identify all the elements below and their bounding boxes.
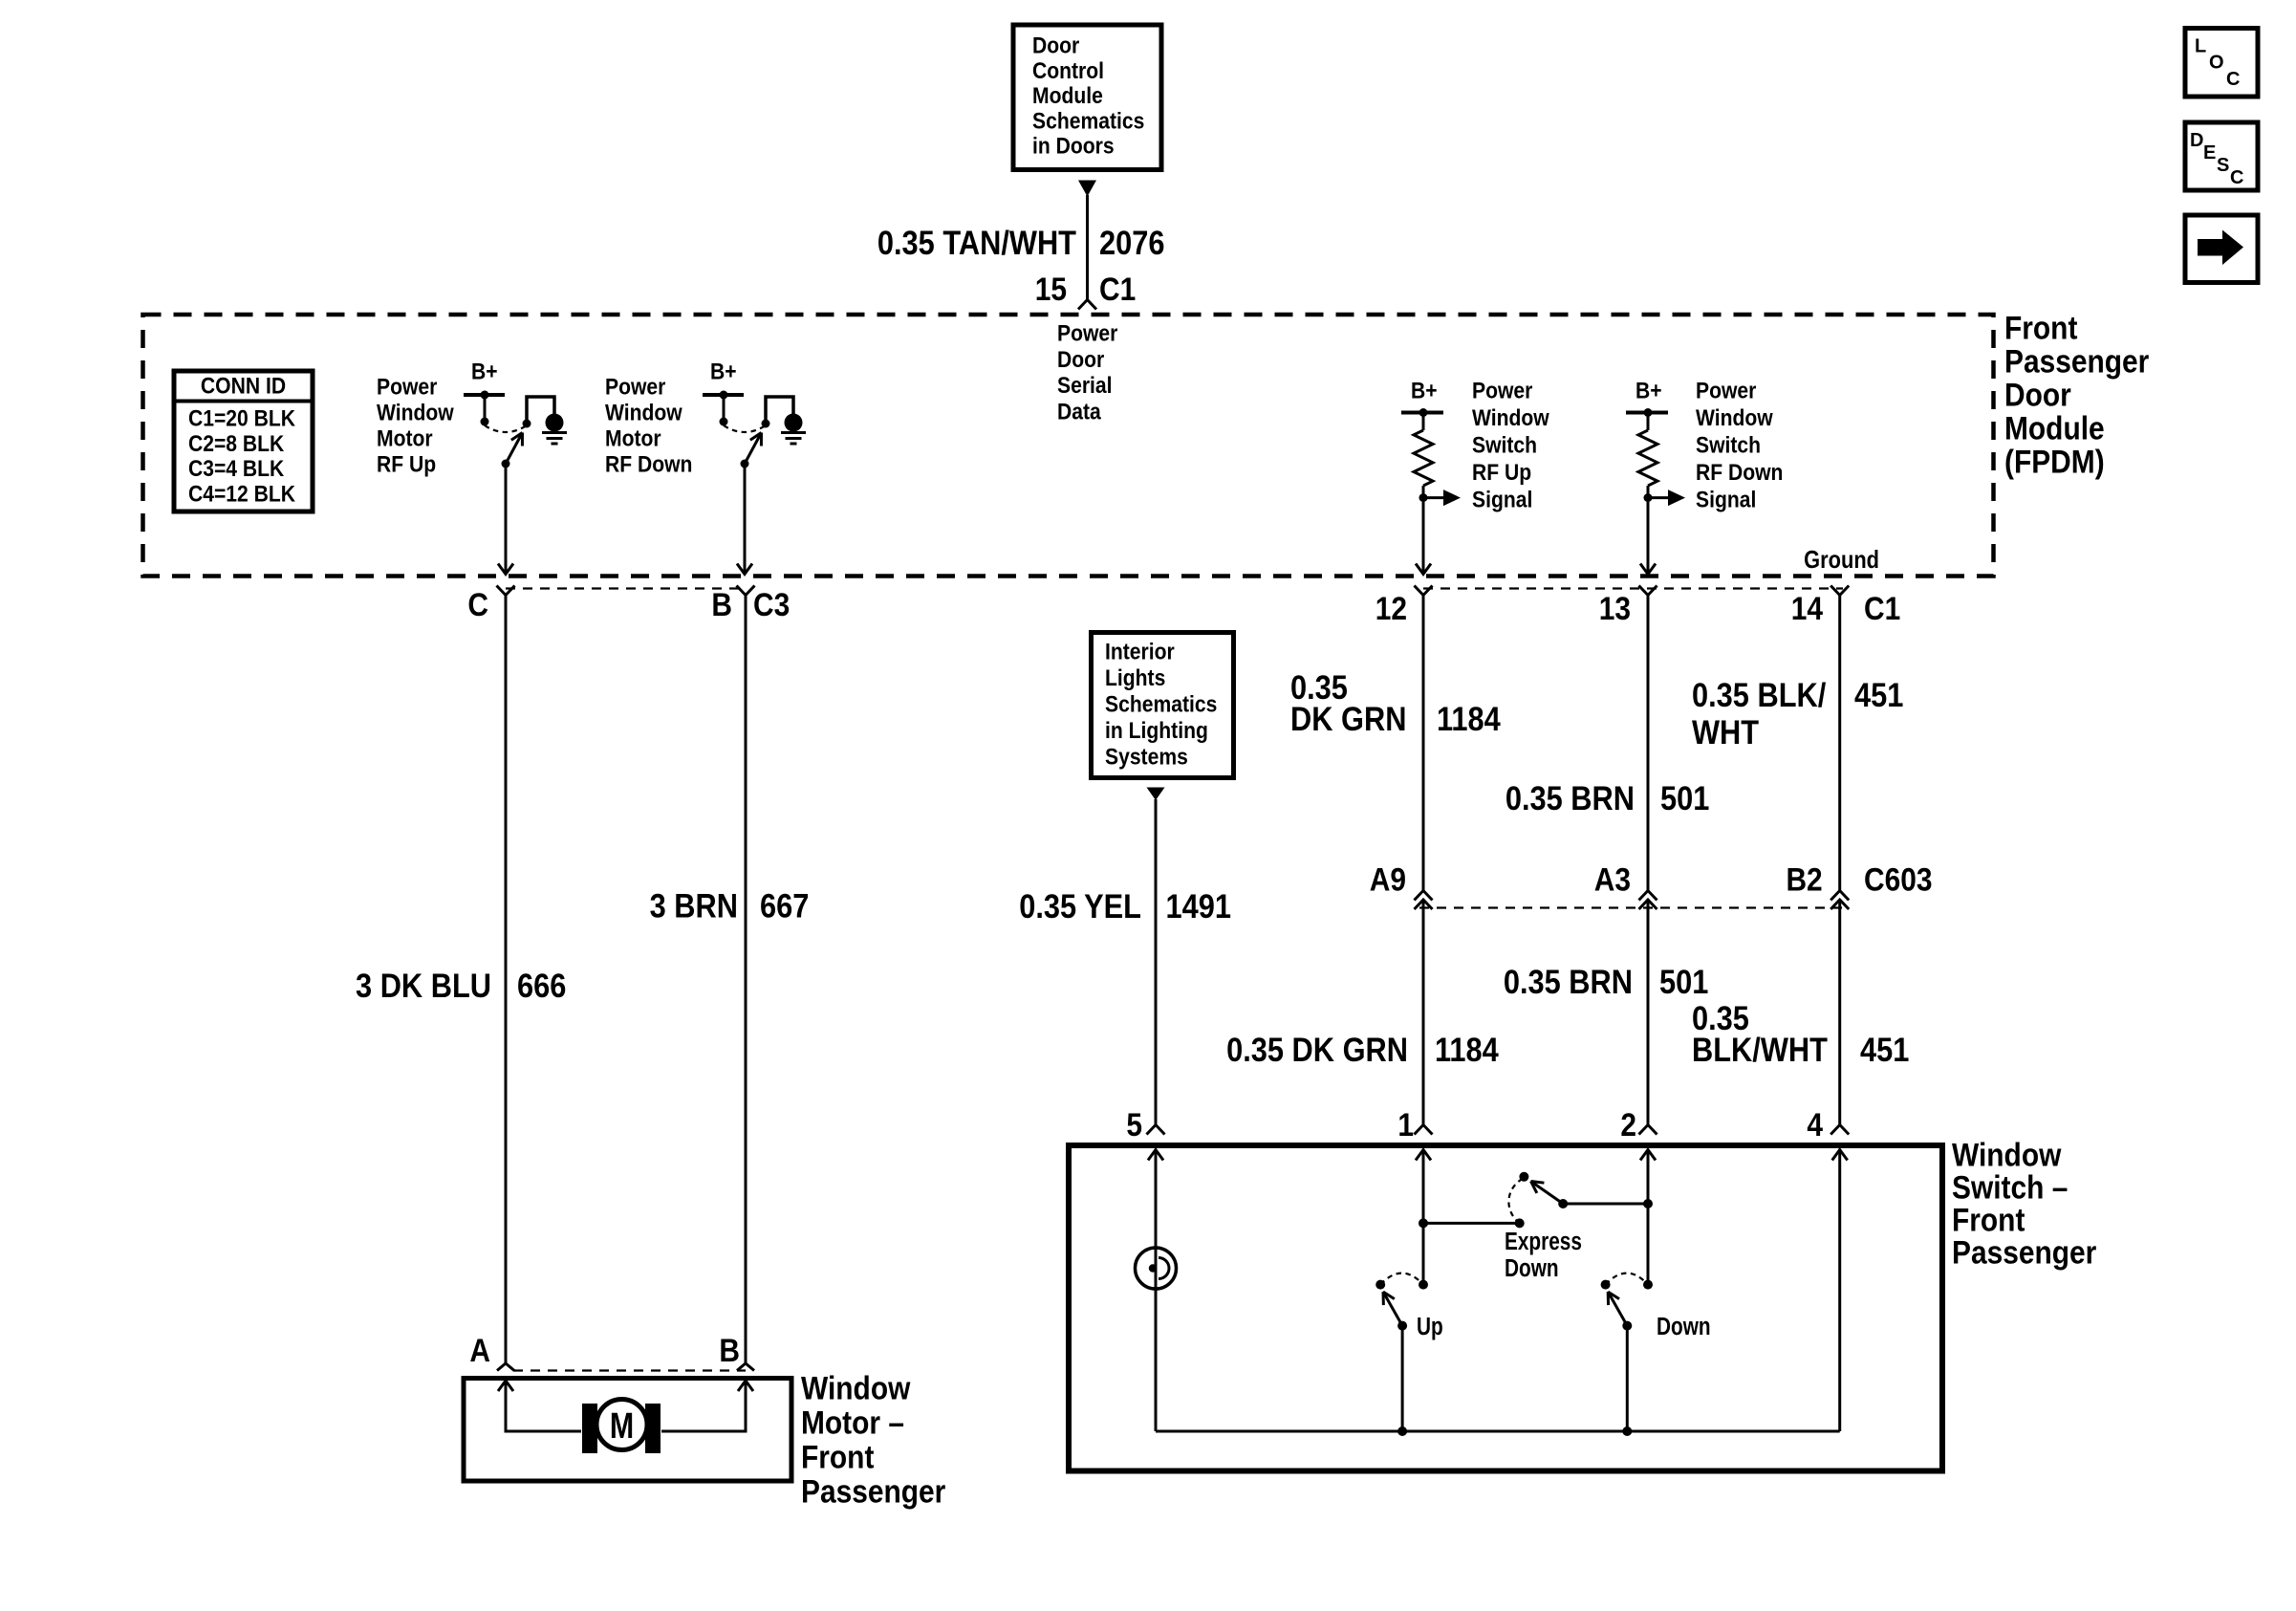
signal node with arrow (1419, 490, 1462, 506)
svg-text:Switch: Switch (1696, 432, 1761, 458)
component outline: Window Switch - Front Passenger (1069, 1145, 1942, 1471)
svg-text:501: 501 (1659, 963, 1708, 1000)
svg-text:Window: Window (1472, 405, 1549, 431)
motor lead B (661, 1381, 746, 1431)
svg-text:Signal: Signal (1472, 487, 1532, 512)
wire: up switch to ground bus (1401, 1326, 1404, 1431)
svg-text:C: C (2226, 69, 2240, 90)
connector fork: motor pin B (737, 1363, 754, 1371)
component outline: Window Motor - Front Passenger (464, 1379, 791, 1482)
svg-text:Front: Front (1952, 1202, 2025, 1238)
svg-text:B+: B+ (471, 359, 498, 384)
wire label 0.35 TAN/WHT 2076 (877, 224, 1165, 261)
switch throw arc (dashed) (724, 425, 766, 432)
B+ feed (1626, 378, 1668, 417)
svg-text:C2=8 BLK: C2=8 BLK (188, 431, 285, 457)
svg-text:Lights: Lights (1105, 665, 1165, 691)
pull-up resistor (1638, 414, 1657, 495)
wire entry arrow pin 5 (1148, 1150, 1163, 1161)
wire from switch to module edge (498, 466, 513, 575)
svg-text:Power: Power (605, 374, 666, 400)
wire label 0.35 BLK/WHT 451 (upper) (1692, 676, 1903, 751)
CONN ID table (174, 371, 313, 512)
connector dashed link C1 (1423, 587, 1843, 589)
wire entry arrow pin 2 (1640, 1150, 1656, 1161)
svg-text:in Lighting: in Lighting (1105, 718, 1208, 744)
svg-text:Motor –: Motor – (801, 1404, 904, 1441)
svg-text:Window: Window (377, 400, 454, 425)
svg-text:13: 13 (1599, 590, 1631, 626)
svg-text:Motor: Motor (605, 425, 661, 451)
svg-text:E: E (2203, 142, 2216, 163)
svg-text:C: C (467, 586, 488, 622)
switch throw arc (dashed) (485, 425, 527, 432)
wire: pin 4 to ground bus (1838, 1149, 1841, 1431)
pull-up resistor (1414, 414, 1433, 495)
svg-text:B: B (719, 1332, 740, 1368)
reference box: Interior Lights Schematics in Lighting Systems (1092, 633, 1234, 778)
svg-text:A: A (469, 1332, 490, 1368)
svg-text:1184: 1184 (1437, 700, 1501, 737)
connector fork: switch pin 5 (1147, 1125, 1165, 1135)
svg-text:1: 1 (1397, 1106, 1414, 1143)
express down common link to pin 2 wire (1563, 1199, 1653, 1208)
label: Power Window Switch RF Down Signal (1696, 378, 1783, 512)
motor pin A entry arrow (498, 1381, 513, 1391)
svg-text:C3=4 BLK: C3=4 BLK (188, 456, 285, 482)
svg-text:Power: Power (1472, 378, 1533, 403)
ground contact with bracket (762, 397, 794, 428)
wire label 0.35 BLK/WHT 451 (lower) (1692, 999, 1909, 1068)
svg-text:Motor: Motor (377, 425, 433, 451)
svg-text:0.35 DK GRN: 0.35 DK GRN (1226, 1031, 1408, 1068)
connector fork: switch pin 4 (1830, 1125, 1849, 1135)
svg-text:M: M (610, 1406, 634, 1447)
connector dashed link A-B (513, 1369, 746, 1371)
motor pin B entry arrow (738, 1381, 753, 1391)
down switch arm (1608, 1292, 1632, 1331)
up switch arm (1383, 1292, 1407, 1331)
svg-text:C1: C1 (1099, 271, 1136, 307)
svg-text:Passenger: Passenger (1952, 1234, 2096, 1271)
svg-text:RF Down: RF Down (605, 451, 692, 477)
svg-text:L: L (2195, 35, 2206, 56)
express down pick-off junction (1419, 1218, 1525, 1228)
module label: Front Passenger Door Module (FPDM) (2004, 310, 2149, 480)
wire: connector A3 to switch pin 2 (1647, 900, 1650, 1124)
down switch throw arc (dashed) (1606, 1274, 1648, 1285)
svg-text:WHT: WHT (1692, 713, 1759, 751)
svg-text:0.35 BLK/: 0.35 BLK/ (1692, 676, 1826, 713)
svg-text:0.35 BRN: 0.35 BRN (1505, 779, 1635, 816)
svg-text:Up: Up (1417, 1313, 1443, 1340)
svg-text:Systems: Systems (1105, 744, 1188, 770)
svg-text:Window: Window (605, 400, 682, 425)
svg-text:Schematics: Schematics (1105, 691, 1217, 717)
svg-text:RF Up: RF Up (1472, 460, 1531, 486)
svg-text:Window: Window (801, 1370, 910, 1406)
svg-text:Down: Down (1505, 1254, 1559, 1282)
svg-text:C: C (2230, 167, 2243, 188)
svg-text:Power: Power (1057, 320, 1118, 346)
svg-text:Express: Express (1505, 1228, 1582, 1255)
wire from switch to module edge (737, 466, 752, 575)
svg-text:CONN ID: CONN ID (201, 373, 286, 399)
connector dashed link C603 (1419, 906, 1843, 908)
up switch throw arc (dashed) (1380, 1274, 1423, 1285)
wire: power door serial data to FPDM pin 15 (1086, 195, 1089, 300)
up switch contact (1375, 1280, 1385, 1290)
svg-text:Ground: Ground (1804, 546, 1879, 574)
wire label 0.35 BRN 501 (upper) (1505, 779, 1710, 816)
svg-text:Window: Window (1952, 1137, 2061, 1173)
module outline: Front Passenger Door Module (dashed) (143, 315, 1994, 577)
ground symbol (542, 414, 567, 445)
ground symbol (781, 414, 806, 445)
component label: Window Switch - Front Passenger (1952, 1137, 2096, 1271)
illumination lamp (1136, 1248, 1177, 1289)
svg-text:BLK/WHT: BLK/WHT (1692, 1031, 1828, 1068)
B+ feed (1401, 378, 1443, 417)
wire: pin 2 into switch (1647, 1149, 1650, 1285)
connector fork: switch pin 1 (1415, 1125, 1433, 1135)
svg-text:Control: Control (1032, 58, 1104, 84)
svg-text:Signal: Signal (1696, 487, 1756, 512)
svg-text:Interior: Interior (1105, 639, 1175, 664)
ground bus inside window switch (1156, 1426, 1840, 1436)
svg-text:Power: Power (1696, 378, 1757, 403)
svg-text:3 DK BLU: 3 DK BLU (356, 967, 491, 1004)
svg-text:Serial: Serial (1057, 373, 1113, 399)
svg-text:5: 5 (1126, 1106, 1142, 1143)
B+ feed (703, 359, 744, 425)
svg-text:0.35 YEL: 0.35 YEL (1019, 887, 1141, 925)
wire: FPDM pin down to connector B2 (1838, 596, 1841, 891)
svg-text:S: S (2217, 155, 2229, 176)
wire: FPDM pin down to connector A9 (1422, 596, 1425, 891)
wire entry arrow pin 4 (1832, 1150, 1848, 1161)
arrowhead into Interior Lights box (1147, 788, 1165, 801)
icon box DESC (2185, 122, 2258, 190)
express down switch arm (1531, 1182, 1569, 1209)
wire: FPDM pin down to connector A3 (1647, 596, 1650, 891)
wire: connector B2 to switch pin 4 (1838, 900, 1841, 1124)
svg-text:Door: Door (1032, 33, 1079, 58)
svg-text:2: 2 (1620, 1106, 1636, 1143)
component label: Window Motor - Front Passenger (801, 1370, 945, 1510)
svg-text:15: 15 (1035, 271, 1067, 307)
svg-text:667: 667 (760, 887, 809, 925)
svg-text:Door: Door (2004, 377, 2071, 413)
wire: circuit 667 (motor down) (745, 596, 747, 1365)
svg-text:O: O (2209, 53, 2224, 74)
svg-text:B+: B+ (1411, 378, 1438, 403)
connector fork: FPDM pin 14 (1830, 586, 1849, 596)
svg-text:Window: Window (1696, 405, 1773, 431)
express down contact (1519, 1172, 1528, 1182)
svg-text:14: 14 (1791, 590, 1823, 626)
pin 1 wire end contact (1419, 1280, 1428, 1290)
pin 2 wire end contact (1643, 1280, 1653, 1290)
label: Express Down (1505, 1228, 1582, 1282)
svg-text:C1: C1 (1864, 590, 1900, 626)
svg-text:3 BRN: 3 BRN (650, 887, 738, 925)
svg-text:D: D (2190, 130, 2203, 151)
svg-text:12: 12 (1375, 590, 1407, 626)
down switch contact (1601, 1280, 1611, 1290)
svg-text:Schematics: Schematics (1032, 108, 1144, 134)
wire: pin 5 through lamp to ground bus (1155, 1149, 1158, 1431)
wire: pin 1 into switch (1422, 1149, 1425, 1285)
svg-text:C4=12 BLK: C4=12 BLK (188, 481, 296, 507)
connector fork: FPDM pin C (497, 586, 515, 596)
wire: connector A9 to switch pin 1 (1422, 900, 1425, 1124)
pin label 15 / connector C1 at FPDM top (1035, 271, 1137, 307)
svg-text:Module: Module (2004, 410, 2105, 446)
inline connector B2 (double fork) (1830, 891, 1849, 910)
svg-text:RF Down: RF Down (1696, 460, 1783, 486)
svg-text:451: 451 (1854, 676, 1903, 713)
wire: circuit 1491 to switch pin 5 (1155, 799, 1158, 1124)
wire label 0.35 DK GRN 1184 (lower) (1226, 1031, 1499, 1068)
svg-text:A9: A9 (1370, 861, 1406, 898)
inline connector A3 (double fork) (1639, 891, 1657, 910)
label: Power Window Motor RF Up (377, 374, 454, 477)
wire label 0.35 YEL 1491 (1019, 887, 1231, 925)
wire label 0.35 BRN 501 (lower) (1504, 963, 1709, 1000)
svg-text:Front: Front (2004, 310, 2078, 346)
svg-text:Module: Module (1032, 83, 1103, 109)
wire label 3 DK BLU 666 (356, 967, 566, 1004)
wire to module edge (1416, 502, 1431, 575)
reference box: Door Control Module Schematics in Doors (1013, 25, 1161, 170)
wire: down switch to ground bus (1626, 1326, 1629, 1431)
connector fork: motor pin A (497, 1363, 514, 1371)
svg-text:Switch –: Switch – (1952, 1169, 2068, 1206)
express down switch throw arc (dashed) (1508, 1178, 1524, 1223)
svg-text:Door: Door (1057, 347, 1104, 373)
svg-text:Passenger: Passenger (801, 1473, 945, 1510)
svg-text:2076: 2076 (1099, 224, 1164, 261)
connector fork: FPDM pin 12 (1415, 586, 1433, 596)
svg-text:666: 666 (517, 967, 566, 1004)
motor body M (596, 1400, 647, 1450)
svg-text:Power: Power (377, 374, 438, 400)
svg-text:501: 501 (1660, 779, 1709, 816)
label: Power Window Switch RF Up Signal (1472, 378, 1549, 512)
wire label 3 BRN 667 (650, 887, 810, 925)
svg-text:C3: C3 (753, 586, 790, 622)
svg-text:1184: 1184 (1435, 1031, 1499, 1068)
svg-text:in Doors: in Doors (1032, 133, 1115, 159)
ground contact with bracket (523, 397, 555, 428)
wire to module edge (1640, 502, 1656, 575)
svg-text:C603: C603 (1864, 861, 1933, 898)
svg-text:B+: B+ (710, 359, 737, 384)
svg-text:RF Up: RF Up (377, 451, 436, 477)
label: Power Window Motor RF Down (605, 374, 692, 477)
signal node with arrow (1644, 490, 1686, 506)
svg-text:(FPDM): (FPDM) (2004, 444, 2105, 480)
svg-text:Front: Front (801, 1439, 875, 1475)
motor brushes (582, 1404, 661, 1453)
wire entry arrow pin 1 (1416, 1150, 1431, 1161)
motor lead A (506, 1381, 581, 1431)
svg-text:B: B (711, 586, 732, 622)
pin labels B / C3 (711, 586, 790, 622)
connector fork: switch pin 2 (1639, 1125, 1657, 1135)
B+ feed (464, 359, 505, 425)
svg-text:4: 4 (1807, 1106, 1823, 1143)
wire: circuit 666 (motor up) (505, 596, 508, 1365)
svg-text:0.35 TAN/WHT: 0.35 TAN/WHT (877, 224, 1076, 261)
svg-text:A3: A3 (1594, 861, 1631, 898)
svg-text:1491: 1491 (1166, 887, 1231, 925)
switch arm with arrow (741, 433, 762, 468)
arrowhead into Door Control Module box (1078, 181, 1096, 197)
connector dashed link C-B (connector C3) (506, 587, 746, 589)
svg-text:451: 451 (1860, 1031, 1909, 1068)
svg-text:0.35 BRN: 0.35 BRN (1504, 963, 1633, 1000)
svg-text:Data: Data (1057, 399, 1101, 425)
wire label 0.35 DK GRN 1184 (upper) (1290, 668, 1501, 737)
label: Power Door Serial Data (1057, 320, 1118, 424)
svg-text:DK GRN: DK GRN (1290, 700, 1406, 737)
connector fork: FPDM C1 pin 15 (1078, 300, 1096, 310)
connector fork: FPDM pin 13 (1639, 586, 1657, 596)
icon box LOC (2185, 29, 2258, 98)
icon box arrow (2185, 215, 2258, 283)
inline connector A9 (double fork) (1415, 891, 1433, 910)
svg-text:Passenger: Passenger (2004, 343, 2149, 380)
svg-text:B+: B+ (1635, 378, 1662, 403)
svg-text:Switch: Switch (1472, 432, 1537, 458)
svg-text:B2: B2 (1786, 861, 1822, 898)
svg-text:C1=20 BLK: C1=20 BLK (188, 405, 296, 431)
connector fork: FPDM pin B (737, 586, 755, 596)
switch arm with arrow (502, 433, 523, 468)
svg-text:Down: Down (1657, 1313, 1711, 1340)
